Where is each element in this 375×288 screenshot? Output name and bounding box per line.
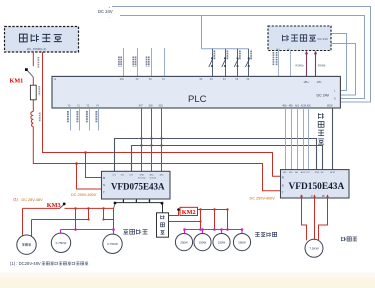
svg-text:RS485+: RS485+	[296, 65, 305, 68]
svg-text:485-: 485-	[160, 175, 164, 177]
svg-text:0V: 0V	[136, 79, 139, 81]
svg-text:485+: 485+	[150, 175, 155, 177]
svg-text:KM3: KM3	[47, 202, 61, 209]
svg-text:DC 250V-400V: DC 250V-400V	[71, 193, 97, 197]
svg-text:T: T	[282, 191, 284, 195]
svg-text:ACM: ACM	[301, 105, 306, 108]
svg-text:0.75KW: 0.75KW	[107, 242, 118, 246]
svg-text:S: S	[282, 183, 284, 187]
svg-text:(1): (1)	[14, 198, 18, 202]
svg-text:DC 24V: DC 24V	[318, 37, 329, 41]
svg-text:250W: 250W	[199, 240, 207, 244]
svg-text:485+: 485+	[282, 106, 288, 108]
svg-text:A02: A02	[307, 105, 312, 108]
svg-text:485-: 485-	[317, 81, 322, 84]
svg-text:DC 24V: DC 24V	[317, 94, 330, 98]
svg-text:(1) : DC28V-48V: (1) : DC28V-48V	[10, 261, 41, 266]
svg-text:X53: X53	[159, 106, 164, 108]
svg-text:KM2: KM2	[182, 209, 196, 216]
svg-text:RS485-: RS485-	[318, 65, 326, 68]
svg-text:PLC: PLC	[188, 94, 207, 105]
svg-text:GND: GND	[140, 175, 145, 177]
svg-text:7.5KW: 7.5KW	[309, 247, 318, 251]
svg-text:250W: 250W	[218, 240, 226, 244]
svg-text:485+: 485+	[304, 81, 310, 84]
svg-text:485-: 485-	[289, 172, 293, 174]
svg-text:VFD075E43A: VFD075E43A	[111, 181, 165, 191]
svg-text:W: W	[322, 194, 325, 198]
svg-text:+: +	[109, 5, 111, 9]
svg-text:250W: 250W	[238, 240, 246, 244]
svg-text:Run/stop: Run/stop	[138, 177, 146, 180]
svg-text:DC 28V-48V: DC 28V-48V	[22, 198, 44, 202]
svg-text:DO(24): DO(24)	[150, 178, 157, 180]
svg-text:R: R	[282, 175, 284, 179]
svg-text:250W: 250W	[180, 240, 188, 244]
svg-text:485-: 485-	[289, 106, 294, 108]
svg-text:DC 24V: DC 24V	[98, 9, 113, 14]
svg-text:-: -	[109, 16, 110, 20]
svg-text:MCM: MCM	[330, 172, 335, 174]
svg-text:MC: MC	[321, 172, 325, 174]
svg-text:X47: X47	[139, 106, 144, 108]
svg-text:GND: GND	[315, 172, 320, 174]
svg-text:V: V	[311, 194, 313, 198]
svg-text:MCM: MCM	[327, 106, 333, 108]
svg-text:T: T	[103, 190, 105, 194]
svg-text:VFD150E43A: VFD150E43A	[289, 182, 345, 192]
svg-text:S: S	[103, 183, 105, 187]
svg-text:0.75KW: 0.75KW	[56, 241, 67, 245]
svg-text:KM1: KM1	[10, 78, 24, 85]
svg-text:24V: 24V	[120, 79, 125, 81]
svg-text:DC_PWR(1,2): DC_PWR(1,2)	[27, 47, 46, 51]
svg-text:DC 250V-400V: DC 250V-400V	[250, 197, 276, 201]
svg-text:X50: X50	[149, 106, 154, 108]
svg-text:A01: A01	[295, 105, 300, 108]
svg-text:ACM: ACM	[301, 171, 306, 174]
